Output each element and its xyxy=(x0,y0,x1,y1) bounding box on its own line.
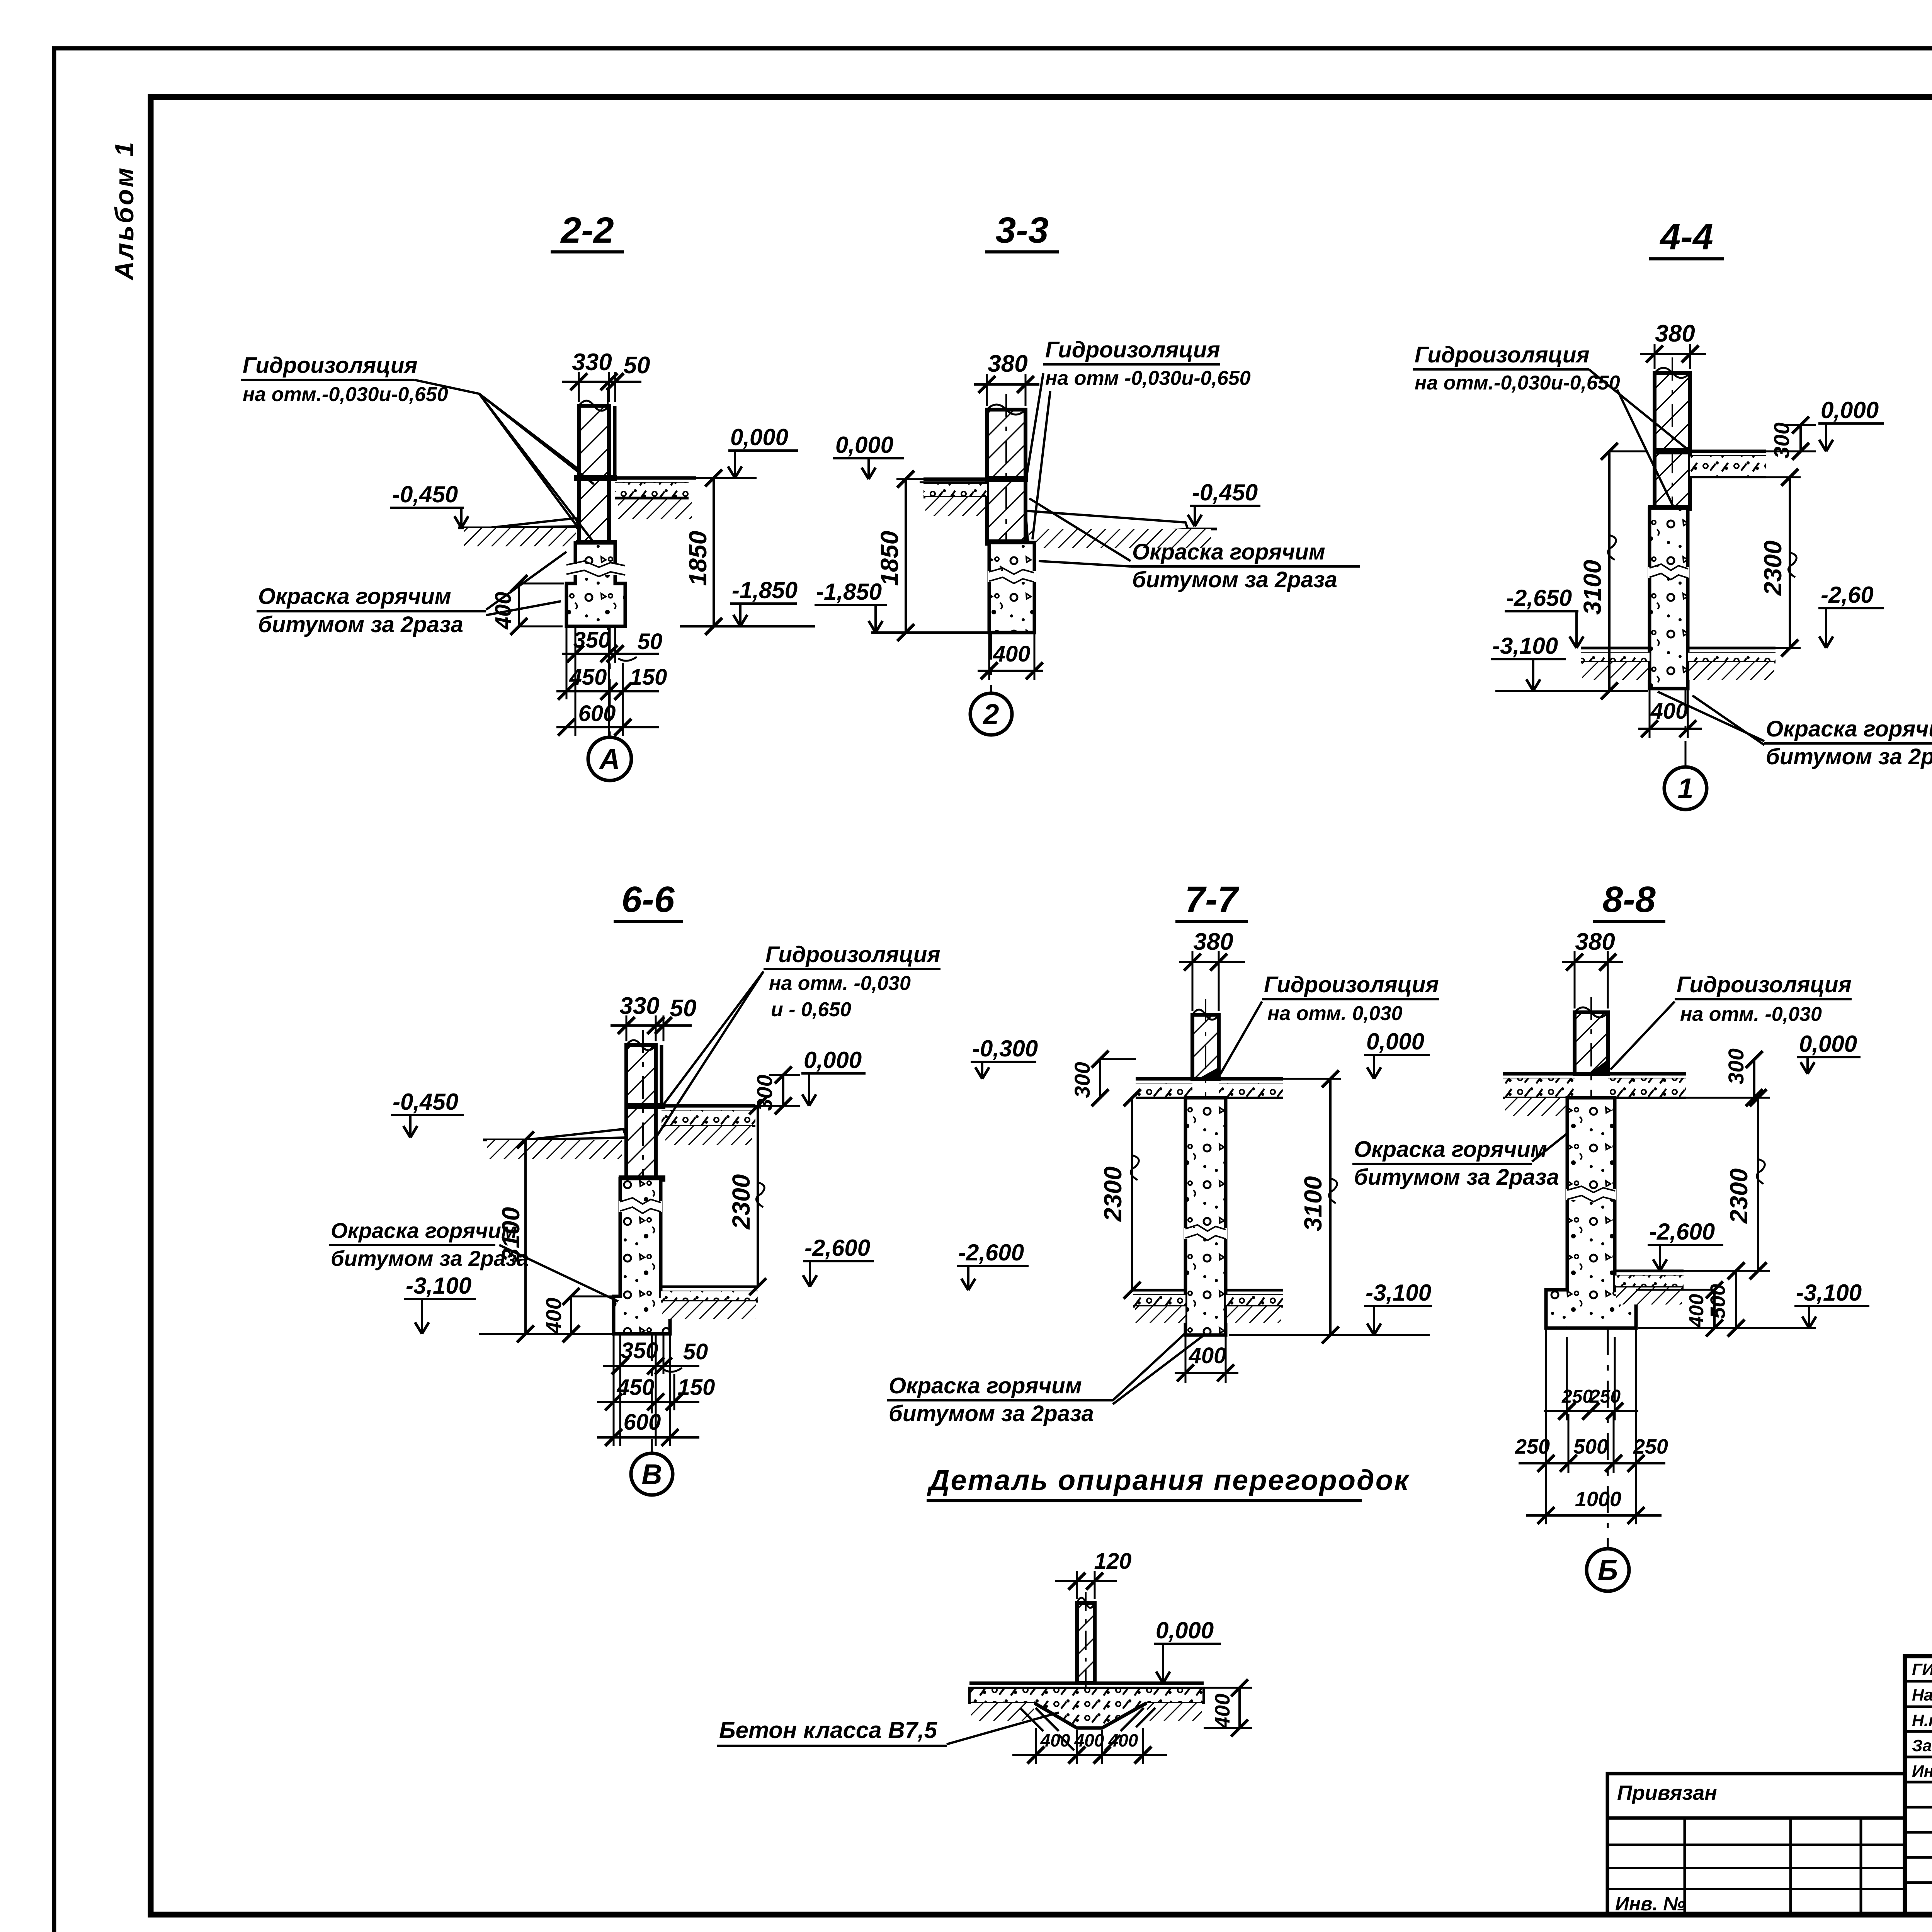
svg-text:Окраска горячим: Окраска горячим xyxy=(1766,716,1932,742)
svg-text:2-2: 2-2 xyxy=(560,210,614,251)
svg-text:1850: 1850 xyxy=(876,531,903,586)
bottom-left attachment row xyxy=(1607,1774,1905,1818)
section 3-3 foundation xyxy=(989,543,1034,633)
svg-text:на отм. 0,030: на отм. 0,030 xyxy=(1267,1002,1403,1025)
section 8-8 wall centerline xyxy=(1590,997,1592,1121)
partition wall xyxy=(1077,1603,1095,1683)
section 6-6 wall centerline xyxy=(642,1030,644,1198)
section 6-6 dim 400 xyxy=(570,1296,572,1334)
svg-text:400: 400 xyxy=(993,641,1031,667)
section 4-4 top dim 380 xyxy=(1640,353,1706,355)
svg-text:на отм.-0,030и-0,650: на отм.-0,030и-0,650 xyxy=(1415,372,1620,394)
section 7-7 dim 2300 xyxy=(1131,1098,1133,1290)
svg-text:2300: 2300 xyxy=(1725,1168,1753,1224)
section 8-8 dim 300 xyxy=(1753,1060,1755,1098)
svg-text:300: 300 xyxy=(752,1075,777,1111)
section 2-2 pavement wedge xyxy=(489,518,579,528)
section 6-6 basement slab right xyxy=(661,1286,758,1288)
section 8-8 dim 400 xyxy=(1713,1290,1716,1328)
svg-text:0,000: 0,000 xyxy=(804,1047,862,1073)
svg-text:Деталь опирания перегородок: Деталь опирания перегородок xyxy=(927,1464,1410,1496)
svg-text:-1,850: -1,850 xyxy=(816,579,882,605)
svg-text:2300: 2300 xyxy=(1099,1167,1127,1222)
svg-text:битумом за 2раза: битумом за 2раза xyxy=(1766,744,1932,769)
svg-text:Б: Б xyxy=(1598,1554,1618,1586)
section 8-8 top dim 380 xyxy=(1562,961,1623,963)
svg-text:Гидроизоляция: Гидроизоляция xyxy=(1415,342,1590,367)
svg-text:Окраска горячим: Окраска горячим xyxy=(258,584,451,609)
section 4-4 dim 400 bottom xyxy=(1638,728,1702,730)
title block outline xyxy=(1905,1656,1932,1915)
section 8-8 lower slab right xyxy=(1615,1270,1684,1272)
svg-text:7-7: 7-7 xyxy=(1185,879,1239,920)
svg-text:Привязан: Привязан xyxy=(1617,1781,1717,1804)
svg-text:150: 150 xyxy=(630,665,667,690)
svg-text:1: 1 xyxy=(1677,772,1693,804)
svg-text:Бетон класса В7,5: Бетон класса В7,5 xyxy=(719,1717,938,1743)
svg-text:400: 400 xyxy=(1040,1730,1070,1750)
section 6-6 axis circle B xyxy=(651,1334,653,1453)
svg-text:битумом за 2раза: битумом за 2раза xyxy=(889,1401,1094,1426)
section 2-2 dim 1850 xyxy=(713,478,715,626)
svg-text:битумом за 2раза: битумом за 2раза xyxy=(1354,1165,1559,1190)
svg-text:-0,450: -0,450 xyxy=(1192,480,1258,505)
svg-text:50: 50 xyxy=(670,995,697,1022)
section 3-3 floor slab left xyxy=(923,478,987,481)
svg-text:500: 500 xyxy=(1573,1435,1608,1458)
section 4-4 foundation xyxy=(1650,508,1688,689)
svg-text:0,000: 0,000 xyxy=(1366,1029,1424,1054)
svg-text:450: 450 xyxy=(617,1375,655,1400)
partition dim 400 right xyxy=(1238,1688,1241,1728)
svg-text:250: 250 xyxy=(1633,1435,1668,1458)
section 7-7 dim 400 xyxy=(1175,1372,1238,1374)
partition bottom dims 400x3 xyxy=(1012,1754,1167,1756)
svg-text:250: 250 xyxy=(1589,1386,1621,1407)
section 4-4 wall centerline xyxy=(1672,357,1673,526)
svg-text:150: 150 xyxy=(678,1375,715,1400)
section 7-7 top dim 380 xyxy=(1179,961,1245,963)
section 2-2 wall centerline xyxy=(607,390,609,630)
svg-text:1850: 1850 xyxy=(684,531,712,586)
section 4-4 axis circle 1 xyxy=(1685,689,1687,767)
svg-text:-2,600: -2,600 xyxy=(804,1235,870,1261)
section 7-7 dim 3100 xyxy=(1329,1079,1332,1335)
section 8-8 waterproof wedge xyxy=(1589,1060,1608,1074)
svg-text:-3,100: -3,100 xyxy=(1366,1280,1431,1306)
svg-text:битумом за 2раза: битумом за 2раза xyxy=(331,1246,529,1270)
section 2-2 waterproofing bars xyxy=(574,475,617,481)
svg-text:50: 50 xyxy=(683,1339,708,1364)
svg-text:на отм. -0,030: на отм. -0,030 xyxy=(1680,1003,1822,1026)
section 6-6 foundation xyxy=(614,1179,670,1334)
section 8-8 foundation xyxy=(1546,1098,1636,1328)
svg-text:Нач.отд.: Нач.отд. xyxy=(1912,1686,1932,1704)
svg-text:2300: 2300 xyxy=(727,1174,755,1230)
section 3-3 ground wedge right xyxy=(1026,511,1188,541)
section 6-6 waterproofing bars xyxy=(625,1103,665,1109)
svg-text:50: 50 xyxy=(638,629,663,654)
svg-text:на отм -0,030и-0,650: на отм -0,030и-0,650 xyxy=(1045,367,1251,389)
section 4-4 basement slab left xyxy=(1581,647,1650,650)
section 8-8 floor slabs xyxy=(1503,1072,1575,1076)
section 4-4 floor slab right at -0.300 xyxy=(1690,450,1766,453)
svg-text:А: А xyxy=(599,743,620,775)
svg-text:0,000: 0,000 xyxy=(1821,397,1879,423)
svg-text:Гидроизоляция: Гидроизоляция xyxy=(1677,972,1852,997)
svg-text:Н.контр.: Н.контр. xyxy=(1912,1711,1932,1730)
svg-text:400: 400 xyxy=(1189,1343,1226,1368)
section 4-4 basement slab right xyxy=(1688,647,1776,650)
svg-text:Гидроизоляция: Гидроизоляция xyxy=(765,942,940,967)
svg-text:-2,60: -2,60 xyxy=(1821,582,1874,608)
svg-text:380: 380 xyxy=(1655,320,1695,347)
svg-text:-2,650: -2,650 xyxy=(1506,585,1572,611)
svg-text:битумом за 2раза: битумом за 2раза xyxy=(258,612,463,637)
partition dim 120 xyxy=(1055,1580,1117,1582)
svg-text:Инв. №: Инв. № xyxy=(1615,1893,1685,1915)
section 4-4 waterproofing bars xyxy=(1653,448,1692,454)
svg-text:380: 380 xyxy=(988,350,1027,377)
svg-text:380: 380 xyxy=(1193,929,1233,955)
svg-text:330: 330 xyxy=(619,993,659,1019)
svg-text:2300: 2300 xyxy=(1759,541,1787,596)
svg-text:битумом за 2раза: битумом за 2раза xyxy=(1132,567,1337,592)
section 7-7 wall centerline xyxy=(1205,999,1206,1113)
partition floor slab xyxy=(969,1682,1204,1685)
svg-text:8-8: 8-8 xyxy=(1602,879,1655,920)
svg-text:0,000: 0,000 xyxy=(1156,1617,1214,1643)
section 3-3 wall centerline xyxy=(1005,394,1007,564)
svg-text:3-3: 3-3 xyxy=(995,210,1048,251)
svg-text:400: 400 xyxy=(1108,1730,1138,1750)
section 7-7 floor slabs xyxy=(1136,1077,1192,1081)
section 2-2 axis circle A xyxy=(609,626,611,737)
section 2-2 bottom dims xyxy=(562,653,659,655)
svg-text:-2,600: -2,600 xyxy=(1649,1219,1715,1245)
section 3-3 wall xyxy=(987,410,1026,543)
svg-text:Окраска горячим: Окраска горячим xyxy=(889,1373,1082,1398)
section 8-8 dim 500 xyxy=(1735,1271,1737,1328)
section 6-6 left ground xyxy=(483,1139,526,1141)
svg-text:-0,300: -0,300 xyxy=(972,1036,1038,1061)
svg-text:Альбом 1: Альбом 1 xyxy=(110,140,139,281)
section 6-6 top dims 330/50 xyxy=(611,1024,692,1027)
section 3-3 axis circle 2 xyxy=(990,633,992,693)
section 4-4 dim 2300 right xyxy=(1789,477,1791,648)
svg-text:Окраска горячим: Окраска горячим xyxy=(1132,539,1325,565)
svg-text:Окраска горячим: Окраска горячим xyxy=(1354,1137,1547,1162)
svg-text:330: 330 xyxy=(572,349,612,376)
svg-text:Инж.: Инж. xyxy=(1912,1762,1932,1781)
svg-text:-3,100: -3,100 xyxy=(406,1273,471,1299)
section 6-6 wall xyxy=(626,1045,656,1179)
section 3-3 top dimension 380 xyxy=(974,383,1039,386)
svg-text:400: 400 xyxy=(1074,1730,1104,1750)
svg-text:-0,450: -0,450 xyxy=(392,481,458,507)
svg-text:120: 120 xyxy=(1094,1549,1132,1574)
svg-text:на отм. -0,030: на отм. -0,030 xyxy=(769,972,911,995)
svg-text:-3,100: -3,100 xyxy=(1492,633,1558,659)
svg-text:4-4: 4-4 xyxy=(1659,216,1713,257)
svg-text:3100: 3100 xyxy=(1578,560,1606,615)
section 4-4 dim 300 xyxy=(1799,425,1802,451)
svg-text:Окраска горячим: Окраска горячим xyxy=(331,1218,517,1243)
svg-text:Зав.гр.: Зав.гр. xyxy=(1912,1736,1932,1755)
svg-text:-3,100: -3,100 xyxy=(1796,1280,1862,1306)
section 3-3 dim 400 bottom xyxy=(978,670,1043,672)
svg-text:380: 380 xyxy=(1575,929,1615,955)
svg-text:Гидроизоляция: Гидроизоляция xyxy=(243,353,418,378)
svg-text:300: 300 xyxy=(1724,1048,1748,1084)
section 7-7 dim 300 xyxy=(1099,1059,1101,1098)
svg-text:3100: 3100 xyxy=(1299,1176,1327,1231)
svg-text:и - 0,650: и - 0,650 xyxy=(771,998,851,1021)
svg-text:Гидроизоляция: Гидроизоляция xyxy=(1045,337,1220,362)
svg-text:В: В xyxy=(641,1458,662,1490)
section 2-2 top dimension 330/50 xyxy=(562,381,641,383)
section 6-6 bottom dims xyxy=(603,1365,699,1367)
svg-text:6-6: 6-6 xyxy=(621,879,675,920)
svg-text:-0,450: -0,450 xyxy=(393,1089,458,1115)
section 2-2 dim 400 left of footing xyxy=(518,583,520,626)
svg-text:0,000: 0,000 xyxy=(835,432,893,458)
svg-text:0,000: 0,000 xyxy=(730,424,788,450)
section 8-8 wall xyxy=(1575,1012,1608,1074)
svg-text:Гидроизоляция: Гидроизоляция xyxy=(1264,972,1439,997)
svg-text:2: 2 xyxy=(982,698,999,730)
section 4-4 wall xyxy=(1655,373,1690,508)
svg-text:-2,600: -2,600 xyxy=(958,1240,1024,1265)
section 6-6 floor slab right xyxy=(662,1104,755,1108)
partition concrete bed xyxy=(969,1688,1204,1728)
svg-text:300: 300 xyxy=(1769,422,1794,458)
section 3-3 waterproofing bars xyxy=(985,476,1028,482)
svg-text:1000: 1000 xyxy=(1575,1488,1621,1511)
svg-text:ГИП: ГИП xyxy=(1912,1660,1932,1679)
svg-text:-1,850: -1,850 xyxy=(732,577,798,603)
bottom-left small table xyxy=(1607,1818,1905,1915)
svg-text:350: 350 xyxy=(573,628,611,653)
section 8-8 bottom dims xyxy=(1544,1410,1638,1412)
section 2-2 floor slab right xyxy=(615,476,689,480)
svg-text:400: 400 xyxy=(1685,1294,1708,1328)
section 2-2 left ground line xyxy=(458,527,579,529)
section 7-7 wall xyxy=(1192,1015,1219,1079)
section 8-8 dim 2300 xyxy=(1757,1098,1759,1271)
svg-text:250: 250 xyxy=(1515,1435,1550,1458)
section 6-6 dim 2300 xyxy=(757,1106,759,1287)
section 6-6 dim 300 xyxy=(782,1075,784,1106)
section 3-3 dim 1850 left xyxy=(905,479,907,633)
partition ground hatch xyxy=(971,1703,1034,1721)
section 4-4 dim 3100 left xyxy=(1608,451,1611,691)
svg-text:0,000: 0,000 xyxy=(1799,1031,1857,1057)
section 2-2 wall xyxy=(579,406,609,543)
svg-text:400: 400 xyxy=(541,1298,566,1334)
svg-text:на отм.-0,030и-0,650: на отм.-0,030и-0,650 xyxy=(243,383,448,406)
svg-text:400: 400 xyxy=(1211,1694,1234,1729)
section 7-7 foundation xyxy=(1185,1098,1226,1335)
section 2-2 foundation xyxy=(566,543,625,626)
svg-text:50: 50 xyxy=(624,352,650,379)
section 6-6 dim 3100 xyxy=(524,1140,527,1334)
section 2-2 ground hatch under slab xyxy=(618,498,692,519)
section 7-7 basement slabs xyxy=(1133,1289,1185,1292)
section 7-7 waterproof wedge xyxy=(1198,1067,1219,1079)
svg-text:300: 300 xyxy=(1070,1062,1094,1098)
section 8-8 axis circle B2 xyxy=(1607,1328,1609,1549)
